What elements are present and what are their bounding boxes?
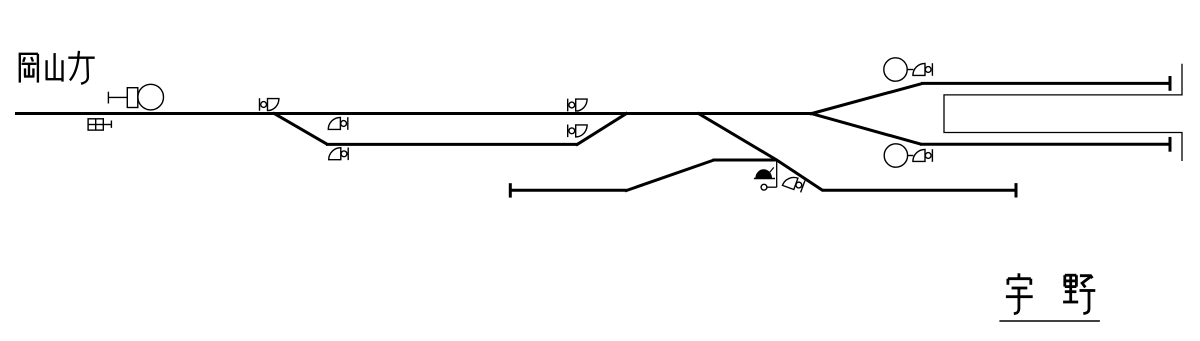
shunting dwarf signal (filled dome) at yard junction [754, 160, 777, 190]
signal S4 up main second (pole-left type) [568, 99, 587, 112]
wire lower yard track right section [822, 189, 1016, 192]
home signal with route indicator, platform track 1 [884, 58, 914, 81]
signal S5 up loop exit (pole-left type) [568, 125, 587, 138]
wire turnout diagonal to loop track [273, 113, 328, 145]
buffer stop bar left end of yard track [509, 183, 512, 197]
kanji Oka (岡) [19, 54, 38, 83]
wire siding track [713, 159, 778, 162]
label "Okayama-gata" (岡山方) hand-drawn kanji [19, 51, 95, 84]
home signal with route indicator, platform track 2 [884, 144, 913, 167]
signal S3 down loop (pole-right type) [329, 148, 349, 161]
platform outline (head platform around track ends) [944, 64, 1182, 161]
departure signal with square head (left symbol) [108, 84, 163, 110]
station name underline [999, 320, 1100, 322]
wire crossing diagonal to lower yard track [698, 113, 824, 191]
wire diagonal down to platform track 2 [810, 113, 922, 144]
wire yard diagonal up to siding [625, 160, 714, 191]
wire loop track diagonal rejoining main [576, 113, 628, 145]
kanji U (宇) [1006, 273, 1033, 313]
crossing grid marker below main line [88, 119, 111, 130]
tilted shunt signal beside diagonal [782, 174, 805, 193]
station name "Uno" (宇野) hand-drawn kanji [999, 273, 1100, 321]
signal S1 up main (pole-left type) [260, 98, 279, 111]
buffer stop bar platform track 2 [1169, 137, 1172, 152]
kanji No (野) [1063, 275, 1095, 313]
kanji yama (山) [46, 53, 63, 82]
wire main line from Okayama side [15, 112, 812, 115]
kanji kata (方) [68, 51, 94, 84]
wire loop track [326, 143, 578, 146]
signal S2 down loop entry (pole-right type) [328, 117, 348, 130]
wire platform track 1 [921, 82, 1170, 85]
wire diagonal up to platform track 1 [810, 83, 923, 114]
buffer stop bar right end of yard track [1015, 183, 1018, 197]
wire lower yard track left section [510, 189, 627, 192]
buffer stop bar platform track 1 [1169, 76, 1172, 91]
wire platform track 2 [920, 143, 1170, 146]
